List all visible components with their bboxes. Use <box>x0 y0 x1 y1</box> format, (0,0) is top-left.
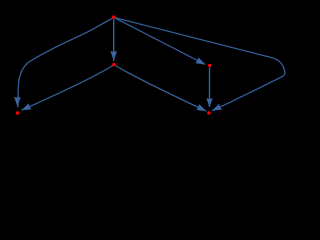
arrowhead into E (from B) <box>196 104 206 111</box>
wire C-E <box>209 68 211 108</box>
arrowhead into D (from B) <box>22 103 32 110</box>
wire B-E <box>114 65 206 112</box>
wire B-D <box>22 65 114 111</box>
arrowhead into E (from right curve) <box>212 104 222 111</box>
arrowhead into E (from C) <box>206 98 212 107</box>
node B <box>112 63 115 66</box>
node D <box>16 111 19 114</box>
wire A-E (right curve) <box>114 17 285 110</box>
arrowhead into D (from curve) <box>14 97 21 107</box>
wire A-B <box>113 19 115 61</box>
node A <box>112 15 115 18</box>
arrowhead into B <box>110 51 117 61</box>
wire A-C <box>114 17 206 64</box>
node C <box>208 64 211 67</box>
wire A-D (left curve) <box>18 17 114 107</box>
arrowhead into C <box>195 57 205 64</box>
node E <box>207 111 210 114</box>
